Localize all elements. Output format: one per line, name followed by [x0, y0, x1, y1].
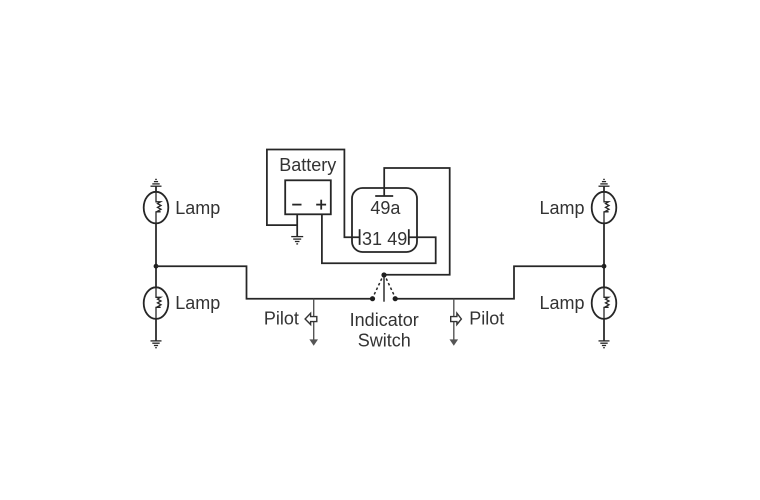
lamp L2 (bottom left) [144, 287, 169, 319]
wire battery minus to ground [296, 214, 298, 236]
svg-text:31: 31 [362, 229, 382, 249]
switch S1 dashed throw right [386, 279, 394, 297]
svg-text:Lamp: Lamp [175, 293, 220, 313]
node right junction [602, 264, 607, 269]
svg-text:49: 49 [387, 229, 407, 249]
node left junction [154, 264, 159, 269]
node switch right contact [393, 296, 398, 301]
lamp L1 (top left) [144, 192, 169, 224]
lamp L3 (top right) [592, 192, 617, 224]
wire left lamp column [155, 186, 157, 341]
switch S1 dashed throw left [374, 279, 382, 297]
battery plus symbol [316, 200, 326, 210]
svg-text:Lamp: Lamp [175, 198, 220, 218]
ground G4 bottom right [599, 341, 610, 348]
wire right junction to switch bus [395, 266, 604, 299]
pilot left stem [309, 299, 318, 346]
wire left junction to switch bus [156, 266, 373, 299]
svg-text:Switch: Switch [358, 330, 411, 350]
battery B1 cell [285, 180, 331, 214]
battery minus symbol [292, 204, 301, 206]
svg-text:Pilot: Pilot [469, 308, 504, 328]
svg-text:Lamp: Lamp [540, 198, 585, 218]
ground G3 top right [599, 179, 610, 186]
svg-text:Pilot: Pilot [264, 308, 299, 328]
relay terminal 49 bar [408, 229, 410, 245]
wire battery enclosure to relay 31 [267, 150, 359, 238]
ground G2 bottom left [151, 341, 162, 348]
switch S1 pole [383, 277, 385, 302]
relay U1 flasher unit [352, 188, 417, 252]
svg-text:Indicator: Indicator [350, 310, 419, 330]
svg-text:Lamp: Lamp [540, 293, 585, 313]
wire relay 49a to switch common [384, 168, 450, 275]
svg-text:49a: 49a [370, 198, 401, 218]
wire right lamp column [603, 186, 605, 341]
relay terminal 31 bar [359, 229, 361, 245]
pilot left arrow [305, 313, 317, 324]
pilot right arrow [451, 313, 462, 324]
ground G1 top left [151, 179, 162, 186]
node switch common [381, 272, 386, 277]
svg-text:Battery: Battery [279, 155, 336, 175]
label Indicator Switch [350, 310, 419, 350]
pilot right stem [450, 299, 459, 346]
relay terminal 49a bar [375, 195, 393, 197]
wire battery plus to relay 49 [322, 214, 436, 263]
node switch left contact [370, 296, 375, 301]
ground G5 battery [291, 237, 303, 244]
lamp L4 (bottom right) [592, 287, 617, 319]
